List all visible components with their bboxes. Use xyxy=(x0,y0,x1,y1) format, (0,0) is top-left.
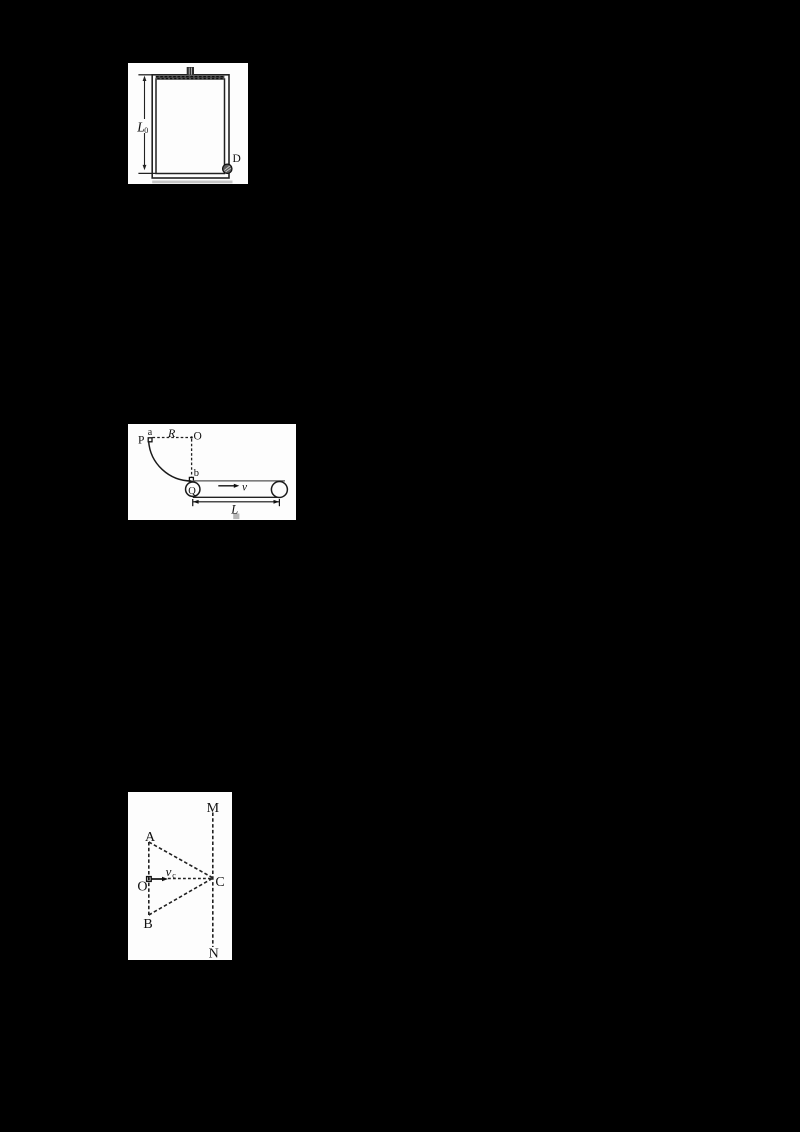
dashed line O C xyxy=(168,878,211,880)
belt bottom line xyxy=(193,496,280,498)
svg-text:v: v xyxy=(166,864,172,879)
dashed line M N xyxy=(212,813,214,948)
velocity arrow v xyxy=(218,484,239,488)
dimension arrowhead right xyxy=(274,500,280,504)
svg-text:P: P xyxy=(138,434,144,446)
dimension arrowhead left xyxy=(193,500,199,504)
dimension line L xyxy=(193,499,280,506)
valve D blob xyxy=(223,164,232,173)
bottom extension line xyxy=(138,172,156,174)
top extension line xyxy=(138,74,152,76)
gray block under L xyxy=(233,514,239,520)
piston hatched band xyxy=(156,76,225,80)
dimension arrow L0 lower segment xyxy=(144,133,146,167)
center dot O xyxy=(190,436,192,438)
figure 2 panel: quarter-circle ramp and conveyor belt xyxy=(128,424,296,520)
belt top line xyxy=(193,480,285,482)
svg-text:R: R xyxy=(167,426,176,440)
dashed line A C xyxy=(149,842,212,878)
velocity arrow vc xyxy=(151,877,168,881)
container outer wall xyxy=(152,75,229,178)
svg-text:D: D xyxy=(233,153,241,165)
shadow bar under container xyxy=(152,181,232,184)
svg-text:O: O xyxy=(137,879,147,894)
dimension arrowhead up xyxy=(143,76,147,81)
figure 3 panel: velocity triangle at line MN xyxy=(128,792,232,960)
point O marker xyxy=(147,877,152,882)
svg-text:0: 0 xyxy=(144,126,148,135)
svg-text:v: v xyxy=(242,481,248,493)
svg-text:c: c xyxy=(172,871,176,880)
roller Q xyxy=(186,482,200,496)
container inner wall xyxy=(156,79,225,174)
svg-text:C: C xyxy=(215,875,224,890)
svg-text:N: N xyxy=(209,946,219,960)
dashed line A B xyxy=(148,842,150,915)
small square b xyxy=(189,477,193,481)
dimension arrowhead down xyxy=(143,165,147,170)
quarter-circle arc track xyxy=(149,441,192,481)
svg-text:a: a xyxy=(148,427,153,438)
svg-text:O: O xyxy=(194,430,202,442)
figure 1 panel: gas container with piston xyxy=(128,63,248,184)
svg-text:Q: Q xyxy=(188,486,196,497)
label L0 xyxy=(136,119,148,135)
small square a xyxy=(148,438,152,442)
right roller xyxy=(271,482,287,498)
svg-text:B: B xyxy=(143,917,152,932)
piston rod nozzle xyxy=(187,67,194,75)
label vc xyxy=(166,864,177,880)
dashed line B C xyxy=(149,879,212,916)
svg-text:b: b xyxy=(194,468,199,479)
dashed line a to O xyxy=(153,437,192,439)
dimension arrow L0 upper segment xyxy=(144,78,146,119)
piston hatch speckle xyxy=(156,77,224,79)
dashed line O to b xyxy=(191,439,193,477)
